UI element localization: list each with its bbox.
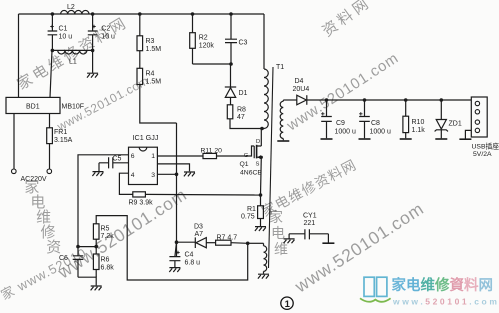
- wire divider node link: [78, 246, 96, 248]
- resistor R3: [137, 14, 161, 68]
- svg-text:A7: A7: [195, 231, 204, 238]
- svg-text:R2: R2: [199, 35, 208, 42]
- transformer T1 primary winding: [264, 69, 268, 129]
- svg-text:电: 电: [271, 225, 285, 241]
- wire pin 1 to R11: [157, 155, 203, 157]
- node C8 top: [363, 98, 367, 102]
- wire R11 to gate: [217, 146, 255, 156]
- AC input terminals AC220V: [12, 169, 52, 183]
- svg-text:R3: R3: [146, 38, 155, 45]
- fuse FR1: [47, 128, 73, 144]
- svg-text:D4: D4: [295, 78, 304, 85]
- svg-text:47: 47: [237, 114, 245, 121]
- node feedback divider top: [76, 245, 80, 249]
- wire L1 right to ground: [92, 50, 94, 72]
- svg-text:R8: R8: [237, 107, 246, 114]
- svg-text:1000 u: 1000 u: [335, 129, 357, 136]
- wire BD1 to fuse FR1: [49, 114, 51, 128]
- node clamp (R2/C3/D1): [229, 62, 233, 66]
- svg-text:3: 3: [151, 172, 155, 179]
- svg-text:0.75: 0.75: [241, 214, 255, 221]
- wire R5 top feedback route to aux node: [96, 216, 248, 280]
- ground CY1 right: [322, 242, 334, 244]
- node pin3/VDD: [175, 173, 179, 177]
- transformer T1 core: [269, 67, 274, 268]
- ground secondary winding: [277, 140, 289, 142]
- resistor R11: [201, 147, 223, 158]
- wire pin 4 loop to R9: [119, 173, 132, 194]
- svg-text:4: 4: [131, 172, 135, 179]
- wire left input vertical: [18, 14, 20, 97]
- svg-text:MB10F: MB10F: [62, 104, 85, 111]
- capacitor C9: [321, 100, 356, 138]
- svg-text:221: 221: [304, 220, 316, 227]
- svg-text:10 u: 10 u: [59, 33, 73, 40]
- svg-text:R6: R6: [101, 257, 110, 264]
- wire R9 to current sense node: [145, 193, 260, 196]
- ground C4: [169, 268, 180, 272]
- svg-text:1: 1: [285, 299, 291, 310]
- wire C1 node to BD1: [50, 50, 52, 97]
- resistor R6: [93, 247, 114, 278]
- ground under C2/L1: [87, 73, 98, 77]
- node VDD / D3 cathode branch: [175, 240, 179, 244]
- zener diode ZD1: [435, 100, 462, 138]
- ground C9: [321, 138, 333, 140]
- node C3 top on rail: [229, 12, 233, 16]
- transistor Q1 (MOSFET 4N6CB): [240, 139, 263, 177]
- svg-text:C8: C8: [371, 120, 380, 127]
- node drain / primary bottom: [260, 127, 264, 131]
- node Q1 source: [260, 156, 263, 159]
- wire CY1 left to primary ground: [288, 234, 290, 239]
- diode D3: [194, 224, 216, 249]
- svg-text:6.8 u: 6.8 u: [185, 260, 201, 267]
- ground C5: [92, 172, 103, 176]
- node aux winding top: [246, 242, 250, 246]
- wire Q1 drain up: [260, 129, 262, 147]
- svg-text:R9 3.9k: R9 3.9k: [129, 200, 154, 207]
- svg-text:G: G: [244, 153, 249, 159]
- ground R1: [255, 227, 266, 231]
- svg-text:D3: D3: [194, 224, 203, 231]
- svg-text:6: 6: [131, 153, 135, 160]
- resistor R5: [93, 224, 114, 247]
- resistor R8: [227, 105, 246, 121]
- wire USB pin4 to ground: [465, 130, 471, 138]
- WATERMARK-LAYER: [14, 14, 131, 93]
- node R5/R6 junction: [94, 245, 98, 249]
- capacitor CY1: [289, 213, 328, 240]
- wire secondary top to D4: [283, 99, 297, 101]
- wire pin 6 to feedback vertical: [78, 155, 129, 247]
- svg-text:6.8k: 6.8k: [101, 265, 115, 272]
- capacitor C3: [225, 14, 248, 64]
- ground ZD1: [435, 138, 447, 140]
- ground R10: [400, 138, 412, 140]
- svg-text:L1: L1: [69, 59, 77, 66]
- resistor R7: [216, 235, 238, 246]
- svg-text:R4: R4: [146, 71, 155, 78]
- node L1 right: [91, 49, 95, 53]
- wire C6 bottom to R6 bottom: [78, 277, 96, 285]
- diode D1: [225, 64, 248, 105]
- ground C8: [359, 138, 371, 140]
- capacitor C5: [99, 156, 129, 172]
- svg-text:维: 维: [274, 241, 288, 257]
- ground IC mid pin: [184, 172, 195, 176]
- svg-text:1: 1: [151, 153, 155, 160]
- svg-text:R7 4.7: R7 4.7: [217, 235, 238, 242]
- svg-text:R10: R10: [412, 119, 425, 126]
- svg-text:20U4: 20U4: [293, 86, 310, 93]
- svg-text:4N6CB: 4N6CB: [240, 170, 262, 177]
- svg-text:L2: L2: [67, 4, 75, 11]
- op-amp/PWM IC U1 (IC1 GJJ): [129, 133, 159, 185]
- capacitor C2: [88, 14, 115, 50]
- svg-text:CY1: CY1: [303, 213, 317, 220]
- bridge rectifier BD1: [6, 97, 84, 113]
- wire BD1 to AC left terminal: [13, 114, 15, 170]
- svg-text:C6: C6: [59, 255, 68, 262]
- svg-text:1.5M: 1.5M: [146, 46, 162, 53]
- USB socket connector: [471, 97, 499, 158]
- LOGO-LAYER: [281, 276, 499, 310]
- node L2 right: [91, 12, 95, 16]
- wire CY1 right to secondary ground: [327, 234, 329, 243]
- svg-text:R5: R5: [101, 226, 110, 233]
- node ZD1 top: [440, 98, 444, 102]
- resistor R4: [137, 68, 161, 85]
- svg-text:AC220V: AC220V: [21, 176, 47, 183]
- wire VDD node to D3: [177, 241, 196, 243]
- wire IC mid pin to ground: [157, 164, 189, 171]
- svg-text:7.2k: 7.2k: [101, 233, 115, 240]
- wire pin 3 to VDD vertical: [157, 173, 176, 175]
- svg-text:IC1 GJJ: IC1 GJJ: [133, 133, 159, 142]
- resistor R2: [190, 14, 215, 64]
- svg-text:C4: C4: [185, 252, 194, 259]
- ground R6/C6: [91, 286, 102, 290]
- node L2 left: [51, 12, 55, 16]
- node R10 top: [404, 98, 408, 102]
- svg-text:Q1: Q1: [240, 161, 249, 168]
- svg-text:C9: C9: [336, 120, 345, 127]
- svg-text:3.15A: 3.15A: [54, 137, 73, 144]
- wire aux node to winding: [248, 242, 264, 244]
- svg-text:www.520101.com: www.520101.com: [392, 297, 499, 307]
- svg-text:C3: C3: [239, 40, 248, 47]
- capacitor C4: [169, 242, 200, 267]
- ground CY1 left: [284, 239, 295, 243]
- wire FR1 to AC right terminal: [49, 144, 51, 169]
- svg-text:10 u: 10 u: [101, 33, 115, 40]
- resistor R10: [403, 100, 425, 138]
- ground aux winding: [258, 274, 269, 278]
- svg-text:D1: D1: [239, 90, 248, 97]
- inductor L2: [61, 4, 89, 14]
- node R3 top on rail: [138, 12, 142, 16]
- wire Q1 source down: [260, 157, 263, 195]
- svg-text:USB插座: USB插座: [472, 142, 499, 151]
- wire R4 bottom to VDD vertical: [140, 85, 177, 124]
- svg-text:S: S: [256, 162, 260, 168]
- svg-text:C5: C5: [113, 156, 122, 163]
- node C9 top: [325, 98, 329, 102]
- wire primary top feed: [263, 14, 265, 69]
- wire R2 bottom to C3 bottom: [193, 63, 232, 65]
- wire R7 to aux node: [231, 242, 248, 245]
- svg-text:资: 资: [46, 239, 61, 256]
- svg-text:FR1: FR1: [54, 129, 67, 136]
- svg-text:1000 u: 1000 u: [370, 129, 392, 136]
- svg-text:1.5M: 1.5M: [146, 79, 162, 86]
- diode D4: [293, 78, 310, 105]
- svg-text:家电维修資料网: 家电维修資料网: [392, 276, 494, 294]
- wire top HV rail: [19, 13, 265, 15]
- svg-text:1.1k: 1.1k: [412, 127, 426, 134]
- transformer T1 secondary winding: [280, 100, 283, 140]
- node L1 left: [51, 49, 55, 53]
- svg-text:T1: T1: [276, 64, 284, 71]
- transformer T1 aux winding: [264, 243, 267, 273]
- capacitor C6: [59, 247, 83, 278]
- ground USB: [459, 138, 471, 140]
- svg-text:R1: R1: [247, 206, 256, 213]
- svg-text:R11 20: R11 20: [201, 147, 223, 154]
- svg-text:ZD1: ZD1: [449, 121, 462, 128]
- wire VDD vertical: [176, 123, 178, 256]
- svg-text:BD1: BD1: [26, 104, 40, 111]
- resistor R1: [241, 195, 263, 226]
- resistor R9: [129, 192, 154, 207]
- node current sense: [259, 193, 263, 197]
- wire R8 bottom to drain node: [230, 119, 264, 129]
- wire output rail: [307, 99, 472, 101]
- capacitor C1: [48, 14, 73, 50]
- svg-text:C1: C1: [59, 26, 68, 33]
- svg-text:5V/2A: 5V/2A: [473, 151, 492, 158]
- svg-text:C2: C2: [101, 26, 110, 33]
- capacitor C8: [359, 100, 391, 138]
- svg-text:D: D: [256, 139, 260, 145]
- node R2 top on rail: [191, 12, 195, 16]
- svg-text:120k: 120k: [199, 42, 215, 49]
- inductor L1: [52, 50, 92, 65]
